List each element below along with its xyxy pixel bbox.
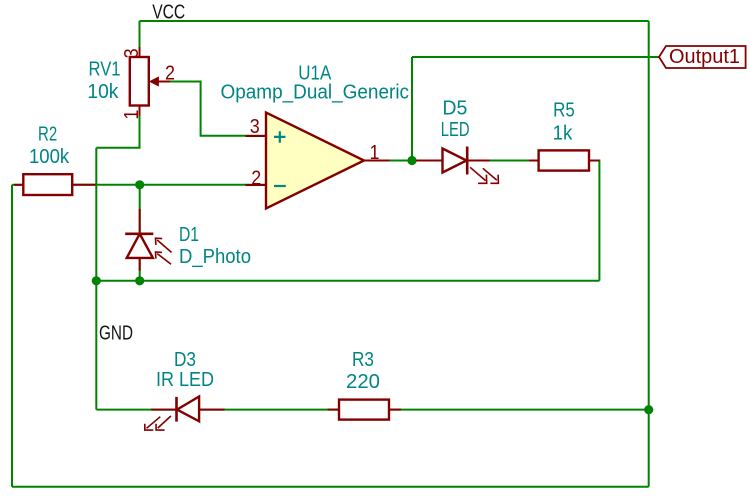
- photodiode D1 body: [125, 209, 171, 271]
- wire GND bottom to D3 anode: [96, 409, 176, 411]
- wire D3 cathode to R3: [199, 409, 339, 411]
- wire bottom rail: [12, 486, 649, 488]
- svg-text:2: 2: [251, 168, 261, 190]
- resistor R2 body: [14, 174, 96, 195]
- wire feedback horizontal: [96, 280, 599, 282]
- svg-text:2: 2: [165, 63, 175, 85]
- wire D1 anode vertical: [139, 185, 141, 234]
- svg-text:10k: 10k: [87, 81, 119, 103]
- wire GND riser: [95, 148, 97, 410]
- svg-text:Opamp_Dual_Generic: Opamp_Dual_Generic: [221, 82, 410, 104]
- wire output riser: [411, 57, 413, 161]
- junction right rail R3: [644, 405, 653, 414]
- svg-text:1k: 1k: [553, 122, 574, 144]
- svg-text:R5: R5: [553, 100, 575, 122]
- resistor R5 body: [529, 150, 599, 170]
- svg-text:D5: D5: [442, 98, 467, 120]
- svg-text:Output1: Output1: [669, 46, 740, 68]
- svg-text:100k: 100k: [29, 146, 70, 168]
- wire VCC riser from RV1 pin 3: [139, 21, 141, 57]
- svg-text:R2: R2: [38, 123, 57, 145]
- wire RV1 pin 1 jog down-left: [96, 106, 139, 148]
- svg-text:220: 220: [346, 371, 380, 393]
- wire left rail up to R2: [11, 185, 13, 487]
- svg-text:3: 3: [121, 48, 143, 58]
- junction feedback D1: [135, 276, 144, 285]
- wire D1 cathode to feedback: [139, 258, 141, 281]
- svg-text:1: 1: [370, 142, 380, 164]
- svg-text:VCC: VCC: [152, 2, 185, 24]
- wire D5 cathode to R5: [467, 160, 538, 162]
- potentiometer RV1 body: [130, 47, 170, 116]
- wire right VCC rail down: [648, 21, 650, 410]
- wire opamp output to D5: [364, 160, 443, 162]
- wire R5 down feedback: [589, 161, 599, 281]
- svg-text:RV1: RV1: [89, 59, 121, 81]
- svg-text:D3: D3: [174, 349, 196, 371]
- wire R2 pin 2 to opamp pin 2: [72, 184, 266, 186]
- op-amp U1A body: [246, 113, 390, 209]
- junction feedback left: [92, 276, 101, 285]
- hierarchical label Output1 flag: [659, 46, 746, 68]
- svg-text:IR LED: IR LED: [156, 369, 214, 391]
- svg-text:LED: LED: [441, 119, 470, 141]
- svg-text:R3: R3: [352, 349, 374, 371]
- wire output horizontal to flag: [412, 56, 659, 58]
- wire R3 to right rail: [389, 409, 649, 411]
- svg-text:3: 3: [250, 116, 260, 138]
- wire RV1 pin 2 to opamp pin 3: [159, 82, 266, 136]
- junction at opamp output: [407, 156, 416, 165]
- svg-text:1: 1: [121, 110, 143, 120]
- resistor R3 body: [328, 400, 401, 420]
- IR LED D3 body: [145, 397, 225, 431]
- junction at R2 / D1 / opamp input: [135, 180, 144, 189]
- wire VCC top rail: [140, 20, 649, 22]
- svg-text:D_Photo: D_Photo: [179, 246, 251, 268]
- wire right rail lower segment: [648, 410, 650, 487]
- svg-text:GND: GND: [99, 323, 133, 345]
- LED D5 body: [416, 147, 499, 184]
- svg-text:D1: D1: [179, 224, 199, 246]
- wire left rail to R2 pin 1: [12, 184, 23, 186]
